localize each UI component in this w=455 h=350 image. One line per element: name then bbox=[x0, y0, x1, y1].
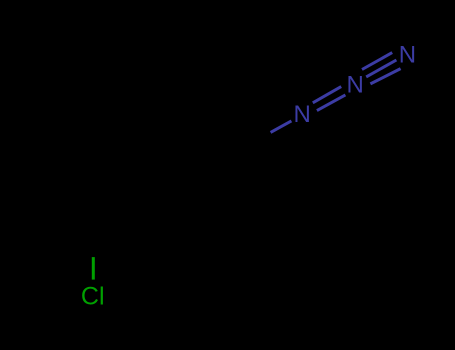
svg-text:Cl: Cl bbox=[81, 282, 105, 310]
wire: triple bond N2#N3, line 1 (top) bbox=[362, 53, 392, 70]
wire: bond C-N1 (blue half, single bond) bbox=[271, 121, 292, 132]
wire: double bond N1=N2, line 2 bbox=[317, 95, 346, 111]
wire: double bond N1=N2, line 1 bbox=[313, 87, 341, 103]
wire: bond C-Cl (green half, single bond) bbox=[92, 257, 95, 280]
wire: triple bond N2#N3, line 2 (middle) bbox=[366, 60, 396, 77]
svg-text:N: N bbox=[347, 71, 364, 98]
wire: triple bond N2#N3, line 3 (bottom) bbox=[370, 69, 400, 84]
svg-text:N: N bbox=[294, 101, 311, 128]
svg-text:N: N bbox=[399, 42, 416, 69]
